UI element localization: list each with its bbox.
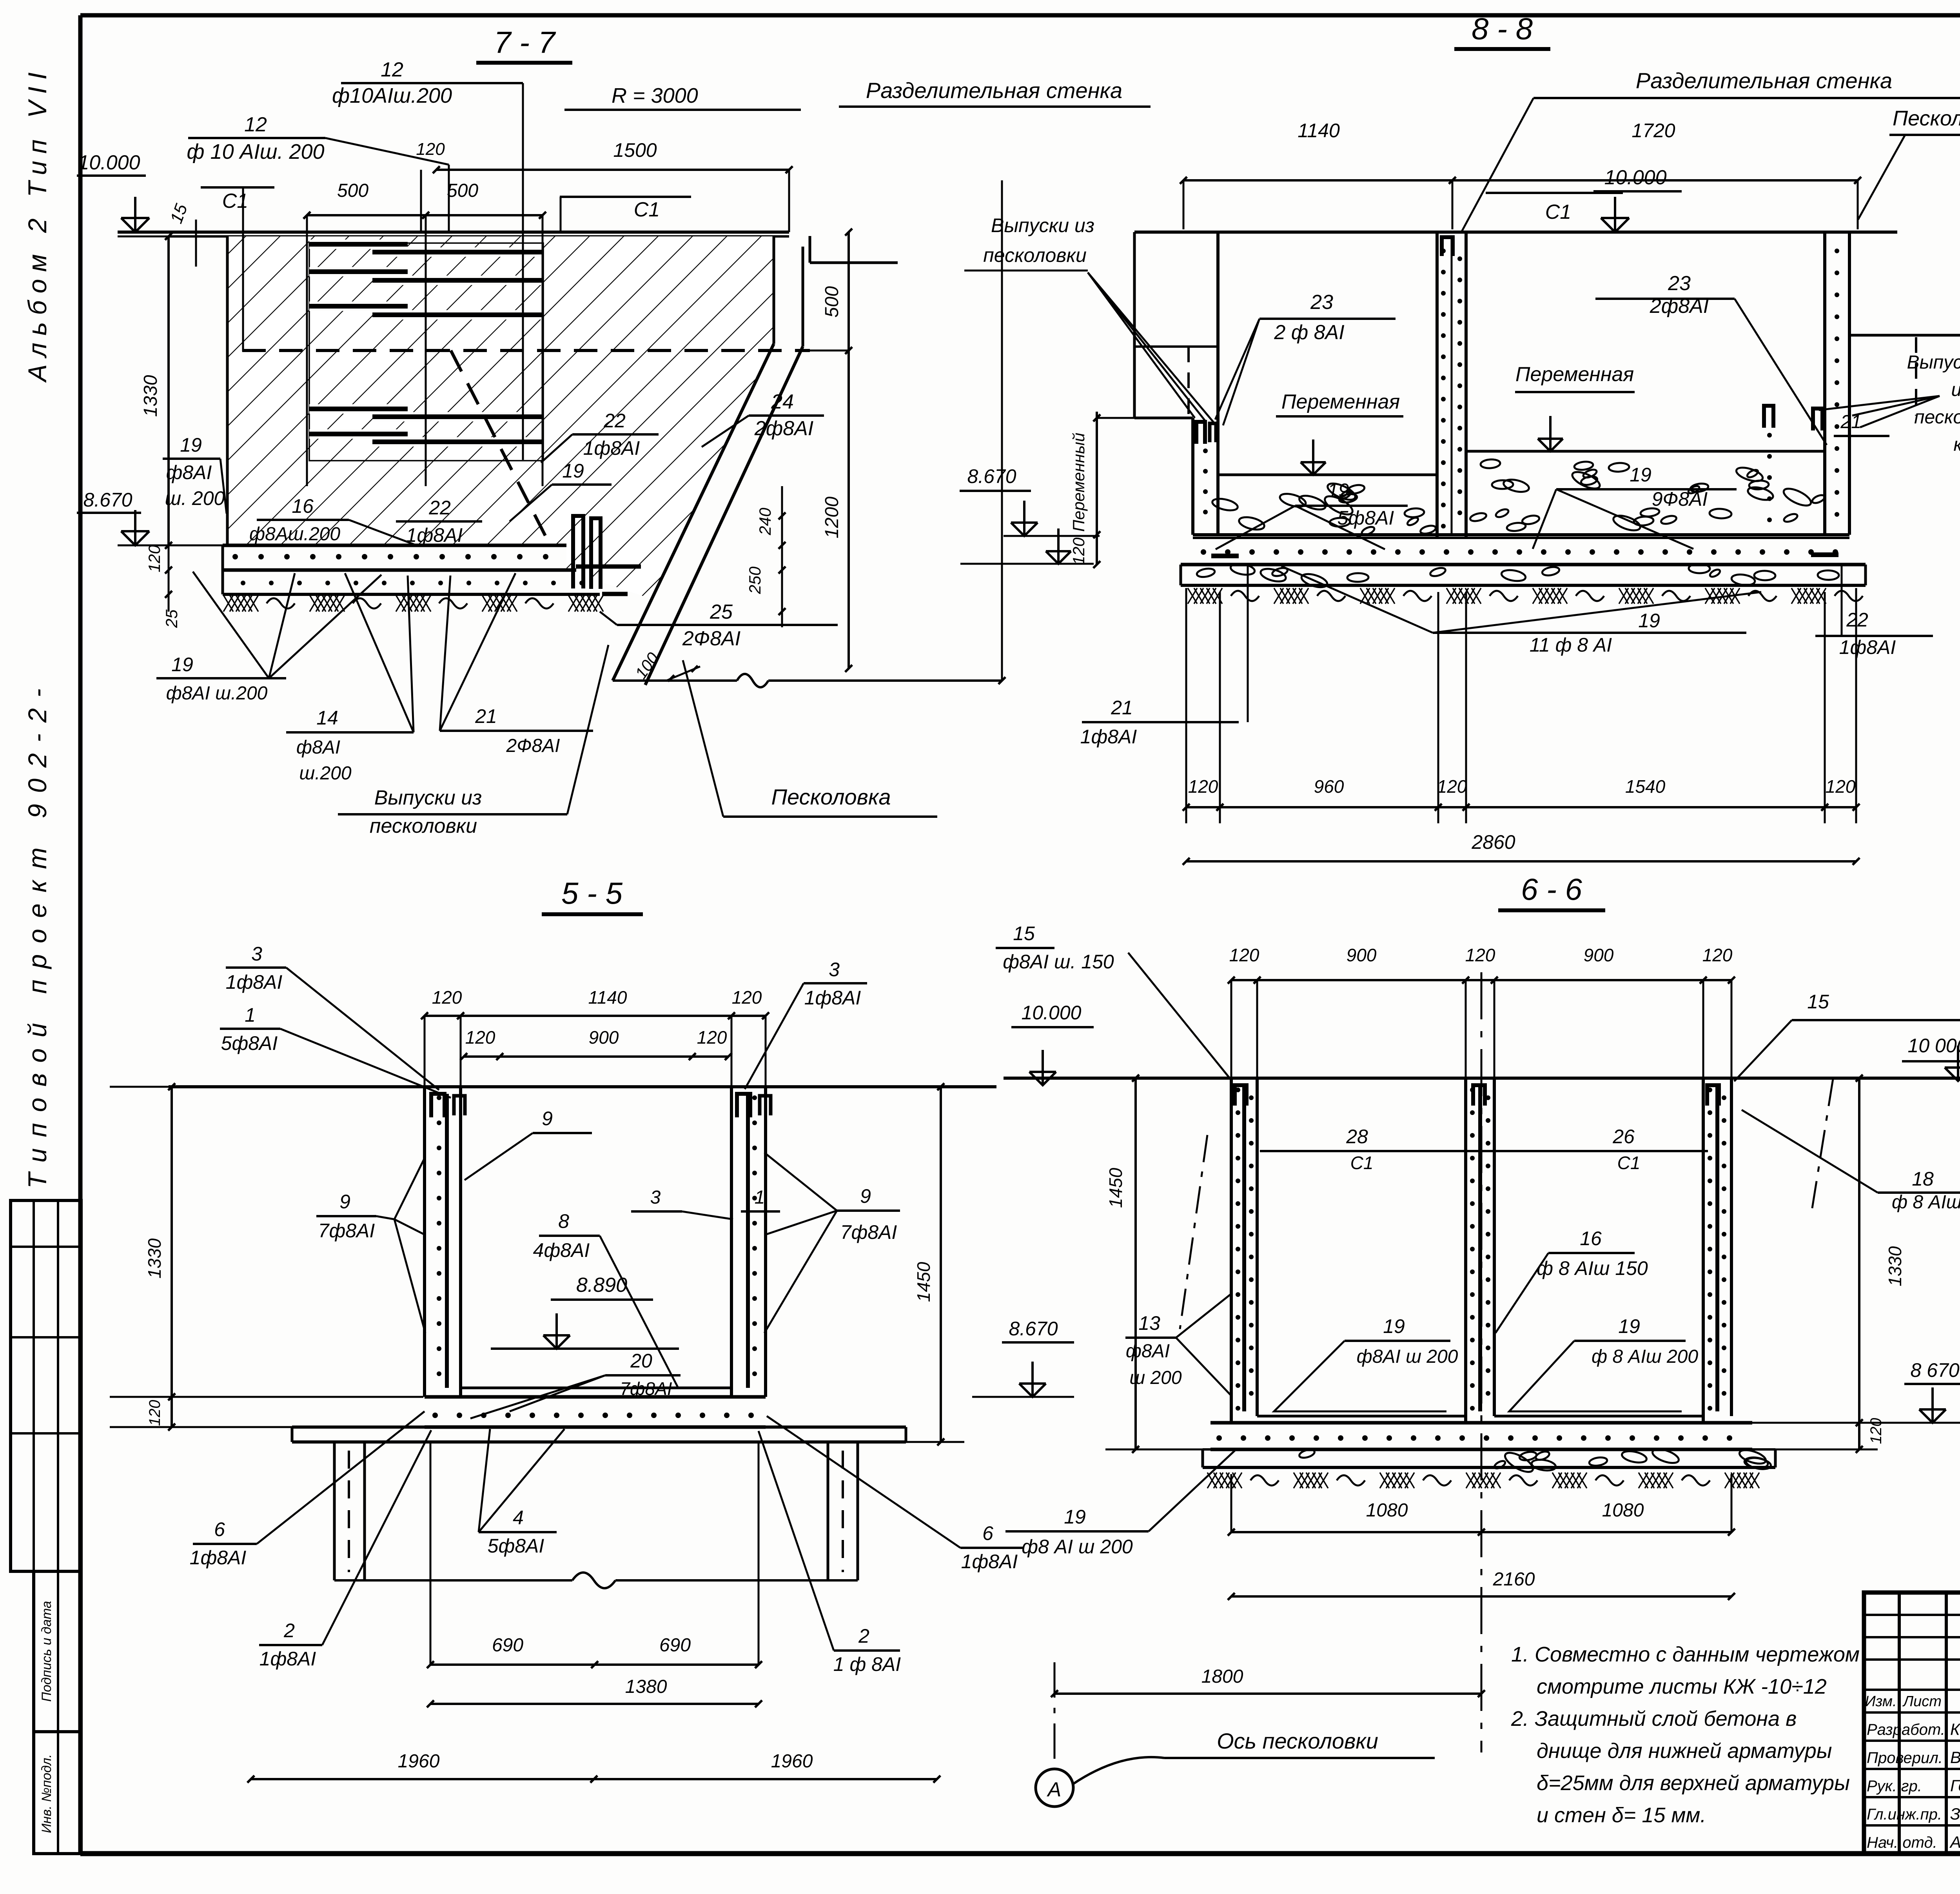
section 7-7 invert dashed line: [242, 350, 810, 539]
svg-text:8: 8: [558, 1210, 569, 1232]
section 5-5 dims 1960 1960: [247, 1751, 940, 1783]
svg-text:6: 6: [982, 1522, 993, 1544]
svg-text:Гл.инж.пр.: Гл.инж.пр.: [1867, 1806, 1942, 1823]
svg-text:ф8АI: ф8АI: [166, 461, 212, 483]
svg-text:9Ф8АI: 9Ф8АI: [1652, 488, 1708, 510]
section 6-6 dim 1450 left: [1105, 1075, 1227, 1453]
svg-text:120: 120: [465, 1027, 495, 1048]
svg-text:δ=25мм для верхней арматуры: δ=25мм для верхней арматуры: [1537, 1771, 1850, 1795]
svg-text:120: 120: [732, 987, 762, 1008]
svg-text:7ф8АI: 7ф8АI: [840, 1221, 897, 1243]
svg-text:1ф8АI: 1ф8АI: [804, 987, 861, 1009]
svg-text:1140: 1140: [1298, 120, 1340, 142]
section 8-8 chamber floor left: [1211, 475, 1437, 536]
svg-text:1ф8АI: 1ф8АI: [406, 524, 463, 546]
svg-text:10.000: 10.000: [1022, 1002, 1082, 1024]
svg-text:Выпуски: Выпуски: [1907, 352, 1960, 373]
section 8-8 dim 2860: [1183, 831, 1860, 865]
svg-text:Ось песколовки: Ось песколовки: [1217, 1729, 1378, 1753]
svg-text:120: 120: [1465, 945, 1495, 965]
svg-text:13: 13: [1138, 1312, 1160, 1334]
section 5-5 labels 3 and 1 middle: [631, 1187, 780, 1219]
section 7-7 ramp band: [613, 236, 898, 685]
section 7-7 dim 1330: [118, 233, 227, 549]
svg-text:2ф8АI: 2ф8АI: [754, 417, 813, 440]
section 6-6 dim 1330/120 right: [1752, 1075, 1905, 1453]
svg-text:8 - 8: 8 - 8: [1472, 11, 1533, 46]
svg-text:1ф8АI: 1ф8АI: [260, 1648, 316, 1670]
svg-text:1330: 1330: [140, 375, 161, 417]
svg-text:21: 21: [1840, 412, 1861, 432]
svg-text:8.670: 8.670: [83, 489, 132, 511]
section 6-6 axis line: [1481, 972, 1483, 1752]
section 7-7 right dim 500/1200: [803, 229, 852, 672]
svg-text:22: 22: [428, 497, 451, 519]
section 7-7 dim 25: [162, 545, 181, 628]
section 8-8 dims 1140 1720: [1180, 120, 1861, 229]
svg-text:Проверил.: Проверил.: [1867, 1749, 1943, 1767]
section 6-6 level 8.670 right: [1878, 1359, 1960, 1423]
svg-text:Андрианов: Андрианов: [1949, 1833, 1960, 1851]
svg-text:120: 120: [1188, 776, 1218, 797]
svg-text:1080: 1080: [1602, 1500, 1644, 1521]
svg-text:19: 19: [1064, 1506, 1086, 1528]
svg-text:250: 250: [746, 566, 764, 594]
svg-text:11 ф 8 АI: 11 ф 8 АI: [1530, 634, 1612, 656]
section 7-7 title: [476, 25, 572, 63]
section 7-7 label 22 right: [541, 410, 659, 463]
svg-text:690: 690: [659, 1635, 691, 1656]
svg-text:2ф8АI: 2ф8АI: [1650, 295, 1709, 318]
section 8-8 left outer zone: [1134, 232, 1218, 418]
section 6-6 ground hatch: [1207, 1473, 1759, 1488]
svg-text:12: 12: [381, 58, 403, 81]
section 6-6 left wall: [1231, 1078, 1257, 1423]
section 8-8 bottom dims: [1183, 588, 1860, 823]
svg-text:500: 500: [447, 180, 478, 201]
svg-text:500: 500: [337, 180, 368, 201]
svg-text:5ф8АI: 5ф8АI: [488, 1535, 544, 1557]
svg-text:С1: С1: [634, 198, 660, 221]
svg-text:песколовки: песколовки: [983, 244, 1087, 266]
section 7-7 label 24: [702, 390, 824, 447]
section 5-5 level 10.000 right: [1011, 1002, 1094, 1085]
section 7-7 dim 1500: [433, 139, 793, 232]
section 8-8 top line: [1134, 231, 1897, 234]
svg-text:15: 15: [1807, 991, 1829, 1013]
section 7-7 dim 15: [167, 201, 196, 267]
section 8-8 bottom slab: [1181, 535, 1866, 565]
svg-text:22: 22: [603, 410, 626, 432]
svg-text:120: 120: [416, 140, 445, 159]
svg-text:240: 240: [756, 507, 774, 536]
svg-text:1ф8АI: 1ф8АI: [583, 437, 640, 459]
svg-text:120: 120: [697, 1027, 727, 1048]
section 8-8 base course: [1181, 562, 1866, 590]
svg-text:690: 690: [492, 1635, 523, 1656]
section 7-7 dims 500 500: [303, 180, 546, 486]
svg-text:7ф8АI: 7ф8АI: [620, 1378, 672, 1399]
section 7-7 label 19 bottom left: [156, 572, 381, 704]
svg-text:28: 28: [1346, 1126, 1368, 1148]
svg-text:2Ф8АI: 2Ф8АI: [682, 627, 740, 650]
section 5-5 right wall: [731, 1087, 771, 1397]
svg-text:1450: 1450: [913, 1262, 934, 1302]
svg-text:1330: 1330: [1885, 1246, 1905, 1286]
svg-text:Киселева: Киселева: [1950, 1720, 1960, 1738]
svg-text:120: 120: [145, 545, 163, 572]
svg-text:Гольдина: Гольдина: [1950, 1776, 1960, 1795]
svg-text:7ф8АI: 7ф8АI: [318, 1220, 375, 1242]
section 7-7 label vypuski: [338, 645, 608, 837]
section 5-5 label 9 7f8AI left: [316, 1157, 425, 1333]
section 7-7 label 14: [286, 573, 414, 784]
section 7-7 label R=3000: [564, 84, 801, 110]
svg-text:18: 18: [1912, 1168, 1934, 1190]
section 8-8 label 19 9f8AI: [1533, 464, 1737, 549]
svg-text:10.000: 10.000: [1604, 166, 1666, 189]
section 8-8 label 23 left: [1215, 291, 1396, 425]
svg-text:20: 20: [630, 1350, 652, 1372]
title block signature rows: [1867, 1720, 1960, 1851]
section 6-6 dims 1080 1080: [1228, 1474, 1735, 1536]
svg-text:смотрите листы КЖ -10÷12: смотрите листы КЖ -10÷12: [1537, 1675, 1827, 1698]
section 7-7 bottom slab: [223, 545, 600, 594]
section 7-7 wall hatched mass: [227, 236, 774, 545]
section 5-5 label 4 5f8AI: [479, 1429, 564, 1557]
section 6-6 level 10.000 right: [1902, 1035, 1960, 1081]
svg-text:ф8Аш.200: ф8Аш.200: [249, 524, 340, 545]
svg-text:Инв. №подл.: Инв. №подл.: [39, 1754, 54, 1833]
svg-text:Песколовка: Песколовка: [771, 784, 891, 809]
svg-text:1800: 1800: [1201, 1666, 1243, 1687]
section 7-7 dim 120 top: [416, 140, 445, 232]
svg-text:14: 14: [316, 707, 338, 729]
section 7-7 label C1 right: [560, 197, 691, 232]
svg-text:1ф8АI: 1ф8АI: [1080, 726, 1137, 748]
section 8-8 label peskolovka right: [1858, 107, 1960, 220]
svg-text:19: 19: [1618, 1315, 1640, 1337]
svg-text:120: 120: [1069, 537, 1088, 565]
section 8-8 level 10.000: [1593, 166, 1682, 232]
section 8-8 label 21 right: [1834, 412, 1889, 436]
svg-text:Выпуски из: Выпуски из: [991, 214, 1094, 236]
section 5-5 label 3 top right: [745, 959, 867, 1089]
svg-text:2160: 2160: [1493, 1569, 1535, 1590]
svg-text:19: 19: [171, 654, 193, 676]
svg-text:А: А: [1047, 1778, 1062, 1801]
svg-text:Переменная: Переменная: [1281, 390, 1400, 413]
svg-text:ф 10 АIш. 200: ф 10 АIш. 200: [187, 140, 324, 163]
section 6-6 top dims: [1228, 945, 1735, 1078]
svg-text:1500: 1500: [613, 139, 657, 161]
section 7-7 hatched wedge below slab: [566, 545, 677, 599]
svg-text:16: 16: [1580, 1228, 1602, 1249]
section 8-8 label C1: [1486, 193, 1623, 223]
svg-text:2 ф 8АI: 2 ф 8АI: [1274, 321, 1344, 344]
left margin cell: signature/date: [34, 1571, 81, 1732]
svg-text:900: 900: [589, 1027, 619, 1048]
svg-text:1 ф 8АI: 1 ф 8АI: [833, 1653, 901, 1675]
section 5-5 level 8.670 right: [972, 1318, 1074, 1397]
svg-text:ш.200: ш.200: [299, 763, 352, 784]
svg-text:1ф8АI: 1ф8АI: [961, 1551, 1018, 1573]
section 7-7 basin bottom line right: [613, 180, 1005, 687]
svg-text:ф8 АI ш 200: ф8 АI ш 200: [1022, 1536, 1133, 1558]
svg-text:960: 960: [1314, 776, 1344, 797]
svg-text:С1: С1: [1617, 1153, 1641, 1173]
section 5-5 dim 1450 right: [766, 1083, 964, 1445]
section 8-8 label razdel wall 7-7: [839, 78, 1151, 107]
section 8-8 title: [1454, 11, 1550, 49]
notes: [1511, 1643, 1860, 1827]
svg-text:900: 900: [1347, 945, 1377, 965]
svg-text:8 670: 8 670: [1910, 1359, 1959, 1381]
svg-text:5ф8АI: 5ф8АI: [221, 1032, 278, 1054]
section 7-7 dim 100: [632, 649, 700, 682]
section 5-5 top dims row1: [421, 987, 769, 1087]
svg-text:5 - 5: 5 - 5: [561, 876, 623, 910]
section 8-8 label 21 1f8AI bottom: [1080, 565, 1248, 748]
svg-text:Переменная: Переменная: [1515, 363, 1634, 386]
section 6-6 dim 1800: [1051, 1666, 1485, 1697]
svg-text:25: 25: [710, 601, 733, 623]
section 5-5 label 3 top left: [226, 943, 439, 1090]
left margin cell: inventory number: [34, 1732, 81, 1854]
section 5-5 label 1 top left: [220, 1004, 451, 1098]
section 5-5 label 2 1f8AI right: [759, 1431, 901, 1675]
svg-text:19: 19: [1327, 479, 1349, 501]
section 5-5 label 8 4f8AI: [533, 1210, 678, 1388]
svg-text:9: 9: [860, 1185, 871, 1207]
section 6-6 bottom slab: [1210, 1423, 1752, 1449]
section 8-8 label 22 1f8AI bottom: [1815, 565, 1933, 658]
section 5-5 label 6 1f8AI right: [767, 1416, 1023, 1573]
svg-text:1720: 1720: [1632, 120, 1675, 142]
section 5-5 level 8.890: [491, 1274, 679, 1349]
svg-text:Выпуски из: Выпуски из: [374, 786, 482, 809]
section 7-7 label peskolovka: [683, 660, 937, 817]
svg-text:1. Совместно с данным чертежом: 1. Совместно с данным чертежом: [1511, 1643, 1860, 1666]
section 7-7 label 16: [249, 495, 416, 545]
svg-text:ф8АI: ф8АI: [296, 737, 340, 758]
svg-text:6 - 6: 6 - 6: [1521, 872, 1583, 906]
svg-text:3: 3: [251, 943, 262, 965]
svg-text:Переменный: Переменный: [1069, 433, 1088, 532]
section 6-6 label 19 left chamber: [1274, 1315, 1458, 1411]
svg-text:2Ф8АI: 2Ф8АI: [506, 735, 560, 756]
svg-text:1080: 1080: [1366, 1500, 1408, 1521]
section 8-8 label peremennaya left: [1276, 390, 1403, 475]
svg-text:19: 19: [1383, 1315, 1405, 1337]
section 8-8 label peremennaya right: [1515, 363, 1635, 451]
svg-text:2: 2: [283, 1620, 295, 1642]
section 8-8 label vypuski right: [1819, 352, 1960, 455]
svg-text:1: 1: [245, 1004, 256, 1026]
section 7-7 slab rebar hooks right: [573, 516, 641, 594]
svg-text:7 - 7: 7 - 7: [494, 25, 556, 60]
svg-text:Альбом 2 Тип VII: Альбом 2 Тип VII: [23, 65, 52, 383]
svg-text:Золотаревский: Золотаревский: [1950, 1805, 1960, 1823]
svg-text:1960: 1960: [398, 1751, 440, 1772]
section 5-5 label 9 top: [465, 1108, 592, 1180]
section 7-7 level mark 10.000 left: [77, 151, 149, 232]
svg-text:Подпись и дата: Подпись и дата: [39, 1601, 54, 1702]
svg-text:С1: С1: [1350, 1153, 1374, 1173]
section 7-7 label 25: [600, 601, 838, 650]
svg-text:ф8АI ш.200: ф8АI ш.200: [166, 683, 268, 704]
svg-text:3: 3: [829, 959, 840, 981]
svg-text:ф 8 АIш 150: ф 8 АIш 150: [1537, 1257, 1648, 1279]
section 8-8 label 23 right: [1595, 272, 1827, 445]
svg-text:9: 9: [339, 1191, 350, 1213]
left margin stamp table: [11, 1200, 81, 1571]
svg-text:19: 19: [1630, 464, 1651, 486]
svg-text:1540: 1540: [1625, 776, 1666, 797]
svg-text:1ф8АI: 1ф8АI: [1839, 636, 1896, 658]
svg-text:6: 6: [214, 1518, 225, 1540]
svg-text:Воробьева: Воробьева: [1950, 1748, 1960, 1767]
svg-text:ф8АI ш 200: ф8АI ш 200: [1357, 1346, 1458, 1367]
svg-text:Рук. гр.: Рук. гр.: [1867, 1778, 1922, 1795]
section 5-5 left wall: [425, 1087, 465, 1397]
svg-text:ш 200: ш 200: [1129, 1367, 1182, 1388]
svg-text:Разделительная стенка: Разделительная стенка: [1636, 68, 1892, 93]
svg-text:120: 120: [1826, 776, 1856, 797]
section 7-7 level 8.670 right: [960, 465, 1100, 536]
section 5-5 label 6 1f8AI left: [190, 1411, 425, 1569]
section 5-5 dim 1380: [427, 1676, 762, 1707]
svg-text:ки: ки: [1953, 434, 1960, 455]
svg-text:Типовой проект 902-2-: Типовой проект 902-2-: [23, 677, 52, 1188]
section 6-6 label 15 right: [1734, 991, 1960, 1081]
svg-text:ф8АI ш. 150: ф8АI ш. 150: [1003, 951, 1114, 973]
section 8-8 label vypuski left: [964, 214, 1215, 424]
svg-text:Разделительная стенка: Разделительная стенка: [866, 78, 1122, 103]
svg-text:4ф8АI: 4ф8АI: [533, 1239, 590, 1261]
svg-text:Лист: Лист: [1902, 1693, 1942, 1710]
section 8-8 label 19 5f8AI: [1216, 479, 1408, 549]
left margin text: album: [23, 65, 52, 383]
section 6-6 label 19 bottom left: [1005, 1451, 1235, 1558]
section 7-7 dim 240 250: [746, 486, 786, 627]
svg-text:ф10АIш.200: ф10АIш.200: [332, 84, 452, 107]
section 5-5 ground line: [169, 1085, 996, 1088]
section 7-7 label 12 lower: [187, 113, 449, 232]
svg-text:2860: 2860: [1471, 831, 1515, 853]
svg-text:900: 900: [1584, 945, 1614, 965]
section 7-7 rebar mesh panel: [309, 243, 543, 461]
svg-text:10 000: 10 000: [1908, 1035, 1960, 1057]
svg-text:1200: 1200: [822, 496, 842, 538]
svg-text:12: 12: [244, 113, 267, 136]
section 5-5 label 20 7f8AI: [470, 1350, 681, 1418]
svg-text:2. Защитный слой бетона в: 2. Защитный слой бетона в: [1511, 1707, 1797, 1731]
section 8-8 ground hatch: [1188, 588, 1863, 604]
section 6-6 axis A circle: [1036, 1662, 1073, 1807]
svg-text:ф 8 АIш 200: ф 8 АIш 200: [1592, 1346, 1698, 1367]
svg-text:8.670: 8.670: [1009, 1318, 1058, 1340]
svg-text:1: 1: [755, 1187, 765, 1208]
section 6-6 dim 2160: [1228, 1569, 1735, 1600]
svg-text:25: 25: [162, 609, 181, 628]
section 5-5 label 2 1f8AI left: [259, 1430, 431, 1670]
section 5-5 floor slab: [425, 1388, 766, 1427]
section 5-5 title: [542, 876, 643, 914]
svg-text:3: 3: [650, 1187, 661, 1208]
section 7-7 ground hatch under slab: [223, 595, 603, 612]
svg-text:500: 500: [822, 286, 842, 318]
section 6-6 label 16: [1495, 1228, 1648, 1333]
svg-text:Песколовка: Песколовка: [1893, 107, 1960, 130]
svg-text:16: 16: [292, 495, 314, 517]
svg-text:24: 24: [771, 390, 794, 413]
section 7-7 label 22 center: [396, 497, 482, 546]
svg-text:19: 19: [1638, 610, 1660, 632]
section 6-6 top line: [1004, 1077, 1960, 1080]
svg-text:22: 22: [1846, 609, 1868, 631]
section 5-5 top dims row2: [460, 1027, 732, 1060]
svg-text:19: 19: [562, 460, 584, 482]
svg-text:19: 19: [180, 434, 202, 456]
section 7-7 label 12 upper: [332, 58, 523, 460]
section 8-8 middle wall: [1437, 232, 1466, 538]
svg-text:и стен δ= 15 мм.: и стен δ= 15 мм.: [1537, 1803, 1706, 1827]
title block header row texts: [1865, 1692, 1960, 1710]
section 7-7 label 19 mid: [510, 460, 612, 521]
svg-text:1380: 1380: [625, 1676, 667, 1697]
svg-text:120: 120: [1437, 776, 1467, 797]
svg-text:26: 26: [1612, 1126, 1635, 1148]
svg-text:120: 120: [432, 987, 462, 1008]
svg-text:из: из: [1951, 380, 1960, 400]
svg-text:21: 21: [1111, 697, 1133, 719]
section 6-6 label 15 left: [996, 922, 1231, 1080]
svg-text:10.000: 10.000: [78, 151, 140, 174]
svg-text:R = 3000: R = 3000: [612, 84, 698, 107]
svg-text:песколов: песколов: [1914, 407, 1960, 428]
svg-text:4: 4: [513, 1507, 524, 1529]
svg-text:Нач. отд.: Нач. отд.: [1867, 1834, 1937, 1851]
svg-text:днище для нижней арматуры: днище для нижней арматуры: [1537, 1739, 1832, 1763]
section 7-7 label 21: [440, 573, 593, 756]
section 6-6 label 18 right: [1742, 1079, 1960, 1215]
svg-text:21: 21: [475, 705, 497, 727]
svg-text:Изм.: Изм.: [1865, 1693, 1896, 1710]
section 6-6 middle wall: [1466, 1078, 1494, 1423]
svg-text:ш. 200: ш. 200: [165, 487, 225, 509]
section 8-8 right wall: [1825, 232, 1849, 535]
svg-text:8.890: 8.890: [576, 1274, 627, 1297]
svg-text:песколовки: песколовки: [370, 815, 477, 837]
svg-text:1ф8АI: 1ф8АI: [190, 1547, 247, 1569]
section 5-5 dim 1330 left: [110, 1083, 423, 1431]
section 6-6 axis label: [1073, 1729, 1435, 1784]
svg-text:15: 15: [1013, 922, 1035, 944]
svg-text:1450: 1450: [1105, 1168, 1126, 1208]
svg-text:120: 120: [1702, 945, 1733, 965]
svg-text:1330: 1330: [144, 1238, 165, 1278]
svg-text:Разработ.: Разработ.: [1867, 1721, 1945, 1738]
svg-text:23: 23: [1668, 272, 1691, 295]
section 6-6 base course: [1203, 1446, 1775, 1475]
section 7-7 label 19 upper left: [163, 434, 227, 514]
section 6-6 title: [1498, 872, 1605, 910]
left margin text: project number: [23, 677, 52, 1188]
svg-text:ф 8 АIш 200: ф 8 АIш 200: [1892, 1192, 1960, 1213]
section 8-8 label razdel wall: [1461, 68, 1960, 232]
section 8-8 level 8.670: [960, 528, 1094, 564]
